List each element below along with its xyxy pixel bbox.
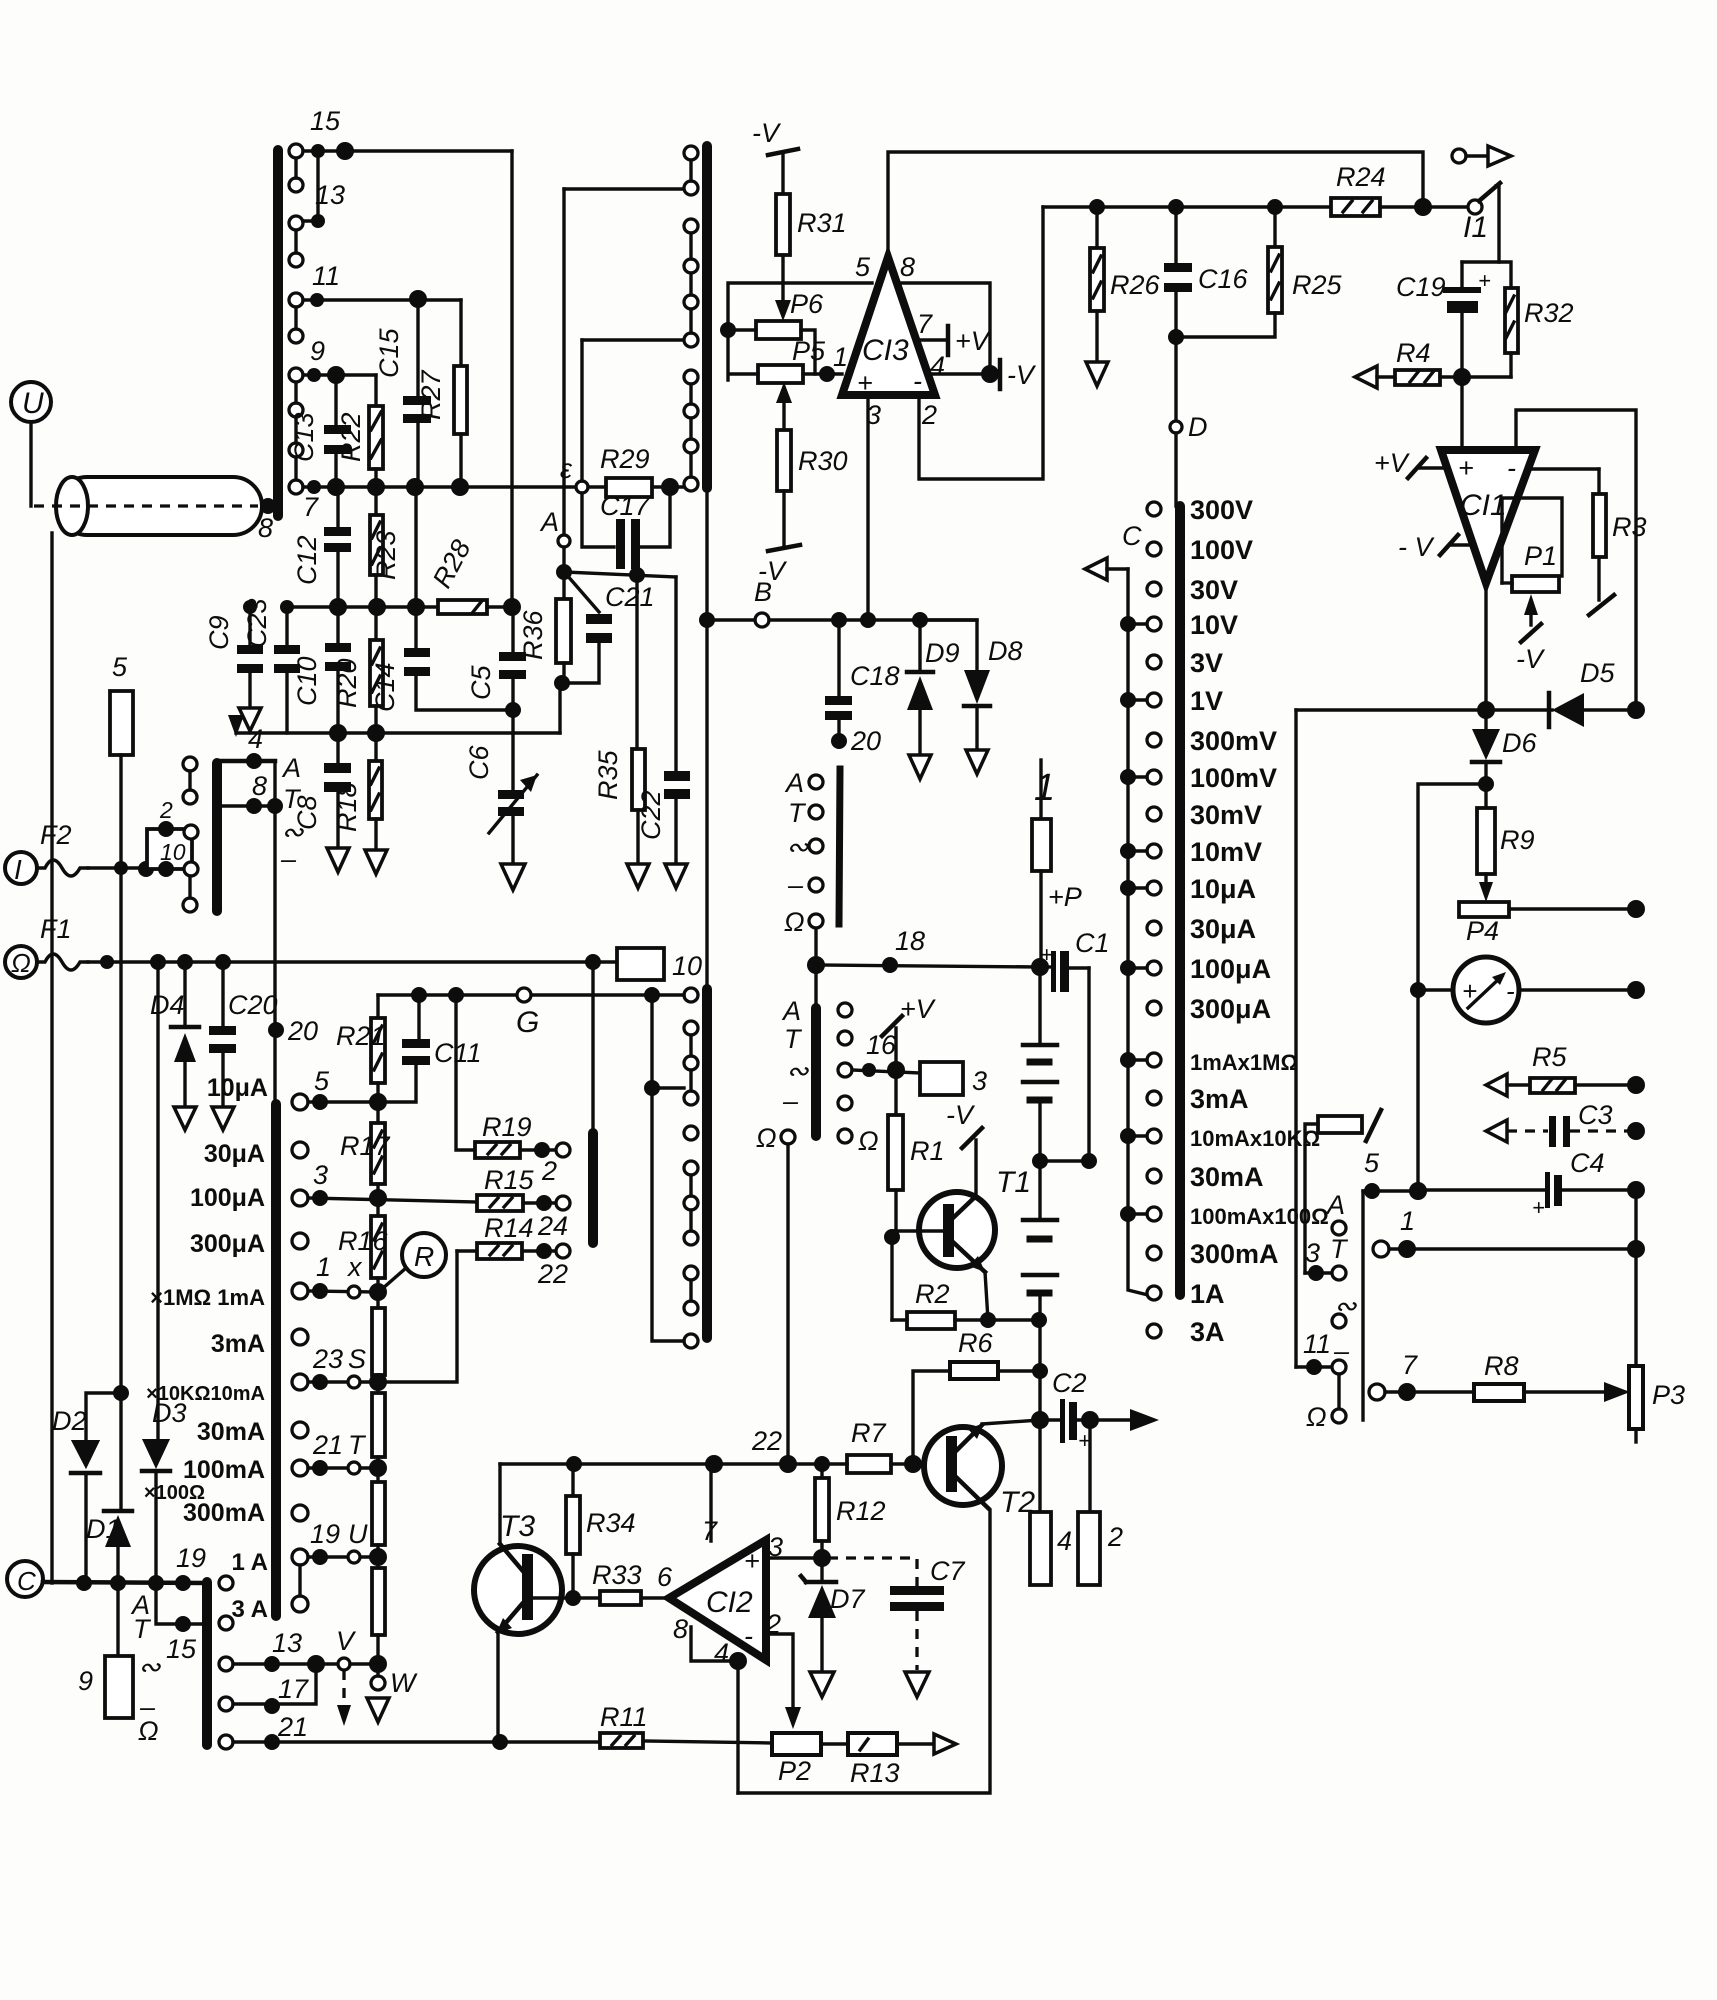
svg-text:P4: P4	[1466, 916, 1499, 946]
CI1 minus input bracket to right bus	[1516, 410, 1636, 710]
svg-text:A: A	[781, 996, 801, 1026]
resistor R15	[477, 1165, 570, 1241]
svg-text:7: 7	[917, 309, 933, 339]
svg-text:8: 8	[258, 513, 273, 543]
P5 right to pin1	[803, 372, 842, 375]
svg-text:300mV: 300mV	[1190, 726, 1277, 756]
CI3 pin3 down to B	[866, 399, 869, 620]
svg-text:5: 5	[855, 252, 871, 282]
wire D6 node left down	[1418, 784, 1486, 1191]
svg-text:20: 20	[287, 1016, 318, 1046]
T1 emitter to row	[985, 1272, 988, 1320]
svg-text:R32: R32	[1524, 298, 1574, 328]
svg-text:R8: R8	[1484, 1351, 1519, 1381]
op-amp CI2	[657, 1516, 783, 1668]
svg-text:C19: C19	[1396, 272, 1446, 302]
svg-text:21: 21	[277, 1712, 308, 1742]
svg-text:300mA: 300mA	[1190, 1239, 1279, 1269]
-V symbol above T1	[946, 1100, 982, 1196]
capacitor C23	[242, 598, 300, 733]
svg-text:D: D	[1188, 412, 1208, 442]
resistor R35	[593, 575, 645, 862]
ground under C20	[212, 1107, 234, 1130]
svg-text:C12: C12	[292, 535, 322, 585]
CI2 pin7 up	[709, 1464, 712, 1541]
svg-text:R17: R17	[340, 1131, 391, 1161]
transformer bar upper	[702, 146, 712, 488]
svg-text:8: 8	[900, 252, 915, 282]
resistor R14	[457, 1213, 570, 1289]
diode D2	[52, 1406, 100, 1583]
svg-text:R31: R31	[797, 208, 847, 238]
wire contact8 down to range bar	[273, 806, 276, 1100]
svg-text:R14: R14	[484, 1213, 534, 1243]
svg-text:R7: R7	[851, 1418, 886, 1448]
svg-text:R34: R34	[586, 1508, 636, 1538]
svg-text:R24: R24	[1336, 162, 1386, 192]
svg-text:300mA: 300mA	[183, 1499, 265, 1527]
svg-text:C: C	[17, 1566, 36, 1596]
row 5 ladder top	[292, 1094, 308, 1110]
svg-text:+: +	[1040, 942, 1053, 967]
contact group right: small resistor with blade	[1305, 1110, 1381, 1273]
svg-text:3 A: 3 A	[232, 1596, 268, 1623]
resistor R30	[776, 382, 848, 545]
wire 188 down to A	[562, 189, 565, 536]
left range labels column	[144, 1140, 265, 1527]
svg-text:5: 5	[1364, 1148, 1380, 1178]
wiper bar mid-left	[588, 1133, 598, 1243]
svg-text:17: 17	[278, 1674, 309, 1704]
capacitor C21	[562, 574, 655, 683]
row 21 T	[292, 1460, 308, 1476]
wire omega mid down to row22	[786, 1144, 789, 1464]
svg-text:R25: R25	[1292, 270, 1343, 300]
wire 1 down to row18	[1039, 871, 1042, 967]
svg-text:18: 18	[895, 926, 925, 956]
svg-text:1 A: 1 A	[232, 1549, 268, 1576]
capacitor C18	[825, 620, 900, 741]
zener D7	[801, 1558, 865, 1670]
svg-text:300V: 300V	[1190, 495, 1253, 525]
CI1 -V	[1398, 532, 1470, 562]
svg-text:T: T	[133, 1614, 152, 1644]
svg-text:T3: T3	[500, 1510, 535, 1543]
svg-text:100μA: 100μA	[190, 1184, 265, 1212]
svg-text:CI3: CI3	[862, 334, 909, 367]
svg-text:R6: R6	[958, 1328, 993, 1358]
svg-text:2: 2	[921, 400, 937, 430]
ladder resistor b1	[372, 1292, 385, 1382]
wire 11 up to D5 row	[1294, 710, 1297, 1367]
svg-text:30μA: 30μA	[204, 1140, 265, 1168]
diode D2 bracket	[86, 1393, 121, 1440]
row 19 U	[292, 1549, 308, 1565]
range labels	[1190, 495, 1329, 1347]
resistor R6	[913, 1328, 1040, 1464]
CI1 output down	[1484, 583, 1487, 710]
node 20 on A/T line	[268, 1022, 284, 1038]
thin wiper bar mid	[839, 769, 840, 924]
node A	[558, 535, 570, 547]
wire I row	[88, 866, 147, 869]
fuse F1	[37, 954, 88, 970]
svg-text:ε: ε	[560, 454, 573, 484]
svg-text:24: 24	[537, 1211, 568, 1241]
resistor R32	[1499, 262, 1574, 377]
svg-text:1: 1	[1034, 767, 1055, 809]
row 23 S	[292, 1374, 308, 1390]
svg-text:9: 9	[310, 336, 325, 366]
svg-text:-V: -V	[946, 1100, 976, 1130]
-V top for R31	[752, 118, 798, 155]
ladder resistor b2	[372, 1382, 385, 1468]
svg-text:C10: C10	[292, 656, 322, 706]
capacitor C19	[1396, 262, 1491, 377]
svg-text:D8: D8	[988, 636, 1023, 666]
B row wire	[713, 618, 755, 621]
svg-text:Ω: Ω	[138, 1716, 159, 1746]
pot P3	[1629, 1366, 1685, 1442]
svg-text:R11: R11	[600, 1702, 648, 1732]
svg-text:×1MΩ 1mA: ×1MΩ 1mA	[150, 1285, 265, 1310]
svg-text:Ω: Ω	[756, 1123, 777, 1153]
omega bus wire	[88, 960, 617, 963]
svg-text:+V: +V	[955, 326, 992, 356]
capacitor C8	[292, 733, 351, 846]
svg-text:C9: C9	[204, 615, 234, 650]
resistor R23	[370, 487, 401, 607]
capacitor C2	[1040, 1368, 1091, 1453]
svg-text:-V: -V	[758, 556, 788, 586]
transistor T3	[474, 1510, 562, 1634]
svg-text:13: 13	[315, 180, 345, 210]
component 4	[1030, 1420, 1072, 1585]
svg-text:22: 22	[751, 1426, 782, 1456]
resistor R7	[847, 1418, 946, 1473]
capacitor C16	[1164, 207, 1249, 294]
resistor R27	[416, 300, 467, 487]
pot P5	[758, 336, 826, 383]
svg-text:D6: D6	[1502, 728, 1537, 758]
transformer bar lower	[702, 989, 712, 1338]
resistor R28	[427, 535, 521, 616]
svg-text:Ω: Ω	[11, 948, 31, 978]
capacitor C15	[374, 299, 431, 487]
node 20 mid	[831, 733, 847, 749]
svg-text:5: 5	[314, 1066, 330, 1096]
switch bar top-left	[273, 150, 283, 516]
svg-text:A: A	[1325, 1190, 1345, 1220]
svg-text:R26: R26	[1110, 270, 1161, 300]
svg-text:-V: -V	[752, 118, 782, 148]
svg-text:R9: R9	[1500, 825, 1535, 855]
row 22	[500, 1462, 847, 1465]
svg-text:7: 7	[303, 492, 319, 522]
meter	[1418, 957, 1636, 1023]
resistor R1	[888, 1070, 945, 1237]
wire pin4 down	[736, 1661, 739, 1793]
transistor T1	[919, 1166, 1031, 1272]
G contact	[517, 988, 531, 1002]
resistor R24	[1331, 162, 1469, 216]
resistor R21	[336, 995, 386, 1102]
wire transformer row 340	[582, 338, 685, 341]
component 5	[110, 652, 133, 755]
svg-text:R18: R18	[332, 782, 362, 832]
svg-text:x: x	[346, 1252, 363, 1282]
resistor R34	[566, 1464, 636, 1598]
svg-text:R19: R19	[482, 1112, 532, 1142]
svg-text:R5: R5	[1532, 1042, 1567, 1072]
svg-text:D4: D4	[150, 990, 185, 1020]
resistor R18	[332, 733, 382, 848]
svg-text:A: A	[784, 768, 804, 798]
svg-text:8: 8	[673, 1614, 688, 1644]
svg-text:-V: -V	[1516, 644, 1546, 674]
svg-text:+: +	[1458, 453, 1474, 483]
resistor R36	[518, 572, 571, 683]
D5 row wire	[1296, 708, 1552, 711]
dashed ground under C7	[905, 1672, 929, 1697]
svg-text:U: U	[348, 1519, 368, 1549]
svg-text:R27: R27	[416, 369, 446, 420]
transistor T2	[924, 1423, 1035, 1519]
dashed arrow under V	[342, 1670, 345, 1710]
svg-text:10V: 10V	[1190, 610, 1238, 640]
omega contact mid-left	[781, 1130, 795, 1144]
svg-text:30V: 30V	[1190, 575, 1238, 605]
svg-text:T1: T1	[996, 1166, 1031, 1199]
svg-text:1: 1	[316, 1252, 331, 1282]
svg-text:T: T	[784, 1024, 803, 1054]
svg-text:–: –	[787, 870, 804, 900]
contacts 13 17 21	[219, 1657, 233, 1671]
terminal U	[11, 382, 51, 422]
row 13 V	[233, 1662, 338, 1665]
svg-text:4: 4	[930, 351, 945, 381]
resistor R22	[336, 375, 383, 487]
ladder resistor b3	[372, 1468, 385, 1557]
svg-text:+: +	[744, 1546, 760, 1576]
svg-text:2: 2	[541, 1156, 557, 1186]
svg-text:3A: 3A	[1190, 1317, 1225, 1347]
wire I1 down	[1462, 186, 1499, 262]
svg-text:C1: C1	[1075, 928, 1110, 958]
row 9	[303, 373, 376, 376]
wire battery bottom to R6 row	[1038, 1320, 1041, 1420]
svg-text:3V: 3V	[1190, 648, 1223, 678]
svg-text:C22: C22	[636, 790, 666, 840]
row R24	[1043, 205, 1331, 208]
svg-text:T: T	[1330, 1234, 1349, 1264]
fuse F2	[37, 860, 88, 876]
svg-text:19: 19	[176, 1543, 206, 1573]
svg-text:∾: ∾	[786, 832, 809, 862]
wire C16 to D	[1174, 292, 1177, 422]
svg-text:R13: R13	[850, 1758, 900, 1788]
pot P6	[756, 289, 824, 339]
capacitor C5	[466, 607, 526, 733]
svg-text:–: –	[782, 1086, 799, 1116]
svg-text:R29: R29	[600, 444, 650, 474]
svg-text:R15: R15	[484, 1165, 535, 1195]
svg-text:+: +	[1532, 1195, 1545, 1220]
row 17	[233, 1664, 316, 1704]
capacitor C11	[378, 995, 482, 1102]
variable capacitor C6	[464, 733, 537, 862]
svg-text:19: 19	[310, 1519, 340, 1549]
P5 P6 left bracket to pin5	[728, 283, 872, 380]
svg-text:F2: F2	[40, 820, 72, 850]
wire 18 down to lower bar	[814, 965, 817, 1004]
row 13	[303, 151, 318, 221]
svg-text:F1: F1	[40, 914, 72, 944]
wire row 733	[236, 731, 560, 734]
svg-text:CI1: CI1	[1460, 489, 1507, 522]
node 8	[260, 498, 276, 514]
svg-text:R: R	[414, 1241, 434, 1272]
row 1 right	[1373, 1206, 1636, 1258]
svg-text:4: 4	[1057, 1526, 1072, 1556]
svg-text:∾: ∾	[786, 1056, 809, 1086]
svg-text:22: 22	[537, 1259, 568, 1289]
svg-text:C16: C16	[1198, 264, 1249, 294]
svg-text:100mA: 100mA	[183, 1456, 265, 1484]
svg-text:C21: C21	[605, 582, 655, 612]
box 10 on omega bus	[617, 948, 702, 981]
row 1 x	[292, 1283, 308, 1299]
battery mid junction	[1032, 1153, 1048, 1169]
svg-text:300μA: 300μA	[190, 1230, 265, 1258]
svg-text:D7: D7	[830, 1584, 865, 1614]
contact box 2/10	[147, 797, 198, 877]
svg-text:P6: P6	[790, 289, 824, 319]
ground under D4	[174, 1107, 196, 1130]
wire 15 down	[510, 151, 513, 600]
wire 15 stub	[156, 1583, 203, 1624]
svg-text:11: 11	[1303, 1329, 1331, 1359]
wire U to cable	[29, 422, 32, 506]
svg-text:30mA: 30mA	[1190, 1162, 1264, 1192]
CI3 pin4 -V	[933, 360, 1037, 390]
A/T switch mid lower: bar	[811, 1008, 821, 1136]
svg-text:30mV: 30mV	[1190, 800, 1262, 830]
svg-text:10μA: 10μA	[207, 1074, 268, 1102]
-V bottom for R30	[758, 545, 800, 586]
diode D8	[920, 620, 1023, 748]
svg-text:C13: C13	[289, 412, 319, 462]
svg-text:U: U	[22, 387, 44, 420]
resistor R11	[600, 1702, 772, 1748]
wire minus input to R3	[1530, 467, 1599, 470]
capacitor C4	[1418, 1148, 1636, 1220]
svg-text:T: T	[788, 798, 807, 828]
capacitor C9	[204, 600, 263, 706]
resistor R9	[1477, 808, 1535, 902]
ground under D7	[810, 1672, 834, 1697]
wire transformer row 188	[564, 187, 685, 190]
range selector bar left	[271, 1104, 281, 1616]
svg-text:8: 8	[252, 771, 267, 801]
spare ladder contacts	[292, 1142, 308, 1158]
wire S to R14	[378, 1251, 457, 1382]
component 2	[1078, 1420, 1123, 1585]
CI3 pin8 bracket	[898, 283, 990, 374]
resistor R25	[1176, 207, 1343, 337]
svg-text:100mAx100Ω: 100mAx100Ω	[1190, 1204, 1329, 1229]
resistor R20	[332, 607, 383, 733]
svg-text:9: 9	[78, 1666, 93, 1696]
svg-text:1mAx1MΩ: 1mAx1MΩ	[1190, 1050, 1298, 1075]
A/T switch left: wire 8	[273, 761, 276, 806]
CI3 pin2 bracket	[919, 207, 1043, 479]
svg-text:- V: - V	[1398, 532, 1435, 562]
A/T switch mid upper contacts	[784, 768, 823, 937]
svg-text:-: -	[1506, 976, 1515, 1006]
svg-text:R3: R3	[1612, 512, 1647, 542]
node B	[755, 613, 769, 627]
svg-text:C8: C8	[292, 795, 322, 830]
A/T switch left: bar	[212, 763, 222, 911]
op-amp CI1	[1441, 450, 1535, 583]
arrow out right	[1090, 1418, 1135, 1421]
svg-text:4: 4	[714, 1638, 729, 1668]
svg-text:100μA: 100μA	[1190, 954, 1271, 984]
capacitor C12	[292, 487, 351, 607]
+V symbol above 16	[882, 994, 937, 1070]
svg-text:3mA: 3mA	[211, 1330, 265, 1358]
resistor R26	[1090, 207, 1161, 360]
svg-text:C5: C5	[466, 665, 496, 700]
svg-text:C18: C18	[850, 661, 900, 691]
resistor R31	[775, 155, 847, 321]
ground under D8	[966, 750, 988, 774]
svg-text:C4: C4	[1570, 1148, 1605, 1178]
transformer contact column upper	[684, 146, 698, 491]
shield wire from cable down to C row	[50, 533, 53, 1583]
svg-text:10mV: 10mV	[1190, 837, 1262, 867]
contact column top-left	[289, 144, 303, 494]
node E	[576, 481, 588, 493]
svg-text:23: 23	[312, 1344, 343, 1374]
svg-text:R30: R30	[798, 446, 848, 476]
row 11	[303, 298, 461, 301]
ground under R35	[627, 864, 649, 888]
A/T mid lower contacts	[838, 1003, 879, 1156]
svg-text:30μA: 30μA	[1190, 914, 1256, 944]
wire C1 right down	[1087, 968, 1090, 1161]
wire 5 bracket down	[1361, 1191, 1364, 1420]
range bar right	[1175, 506, 1185, 1295]
row 18	[816, 965, 1043, 967]
shielded cable	[34, 477, 262, 535]
svg-text:I1: I1	[1463, 211, 1488, 244]
P6 right link	[801, 330, 815, 374]
svg-text:10mAx10KΩ: 10mAx10KΩ	[1190, 1126, 1320, 1151]
arrow after R13	[934, 1734, 956, 1754]
capacitor C1	[1040, 928, 1110, 992]
right bus down to P3	[1634, 1190, 1637, 1366]
G row wire	[378, 993, 684, 996]
pot P1	[1502, 498, 1562, 674]
svg-text:C17: C17	[600, 491, 651, 521]
svg-text:11: 11	[312, 261, 340, 291]
svg-text:1: 1	[833, 342, 848, 372]
ground under D9	[909, 755, 931, 779]
resistor R2	[892, 1279, 1039, 1329]
diode D4	[150, 962, 199, 1105]
